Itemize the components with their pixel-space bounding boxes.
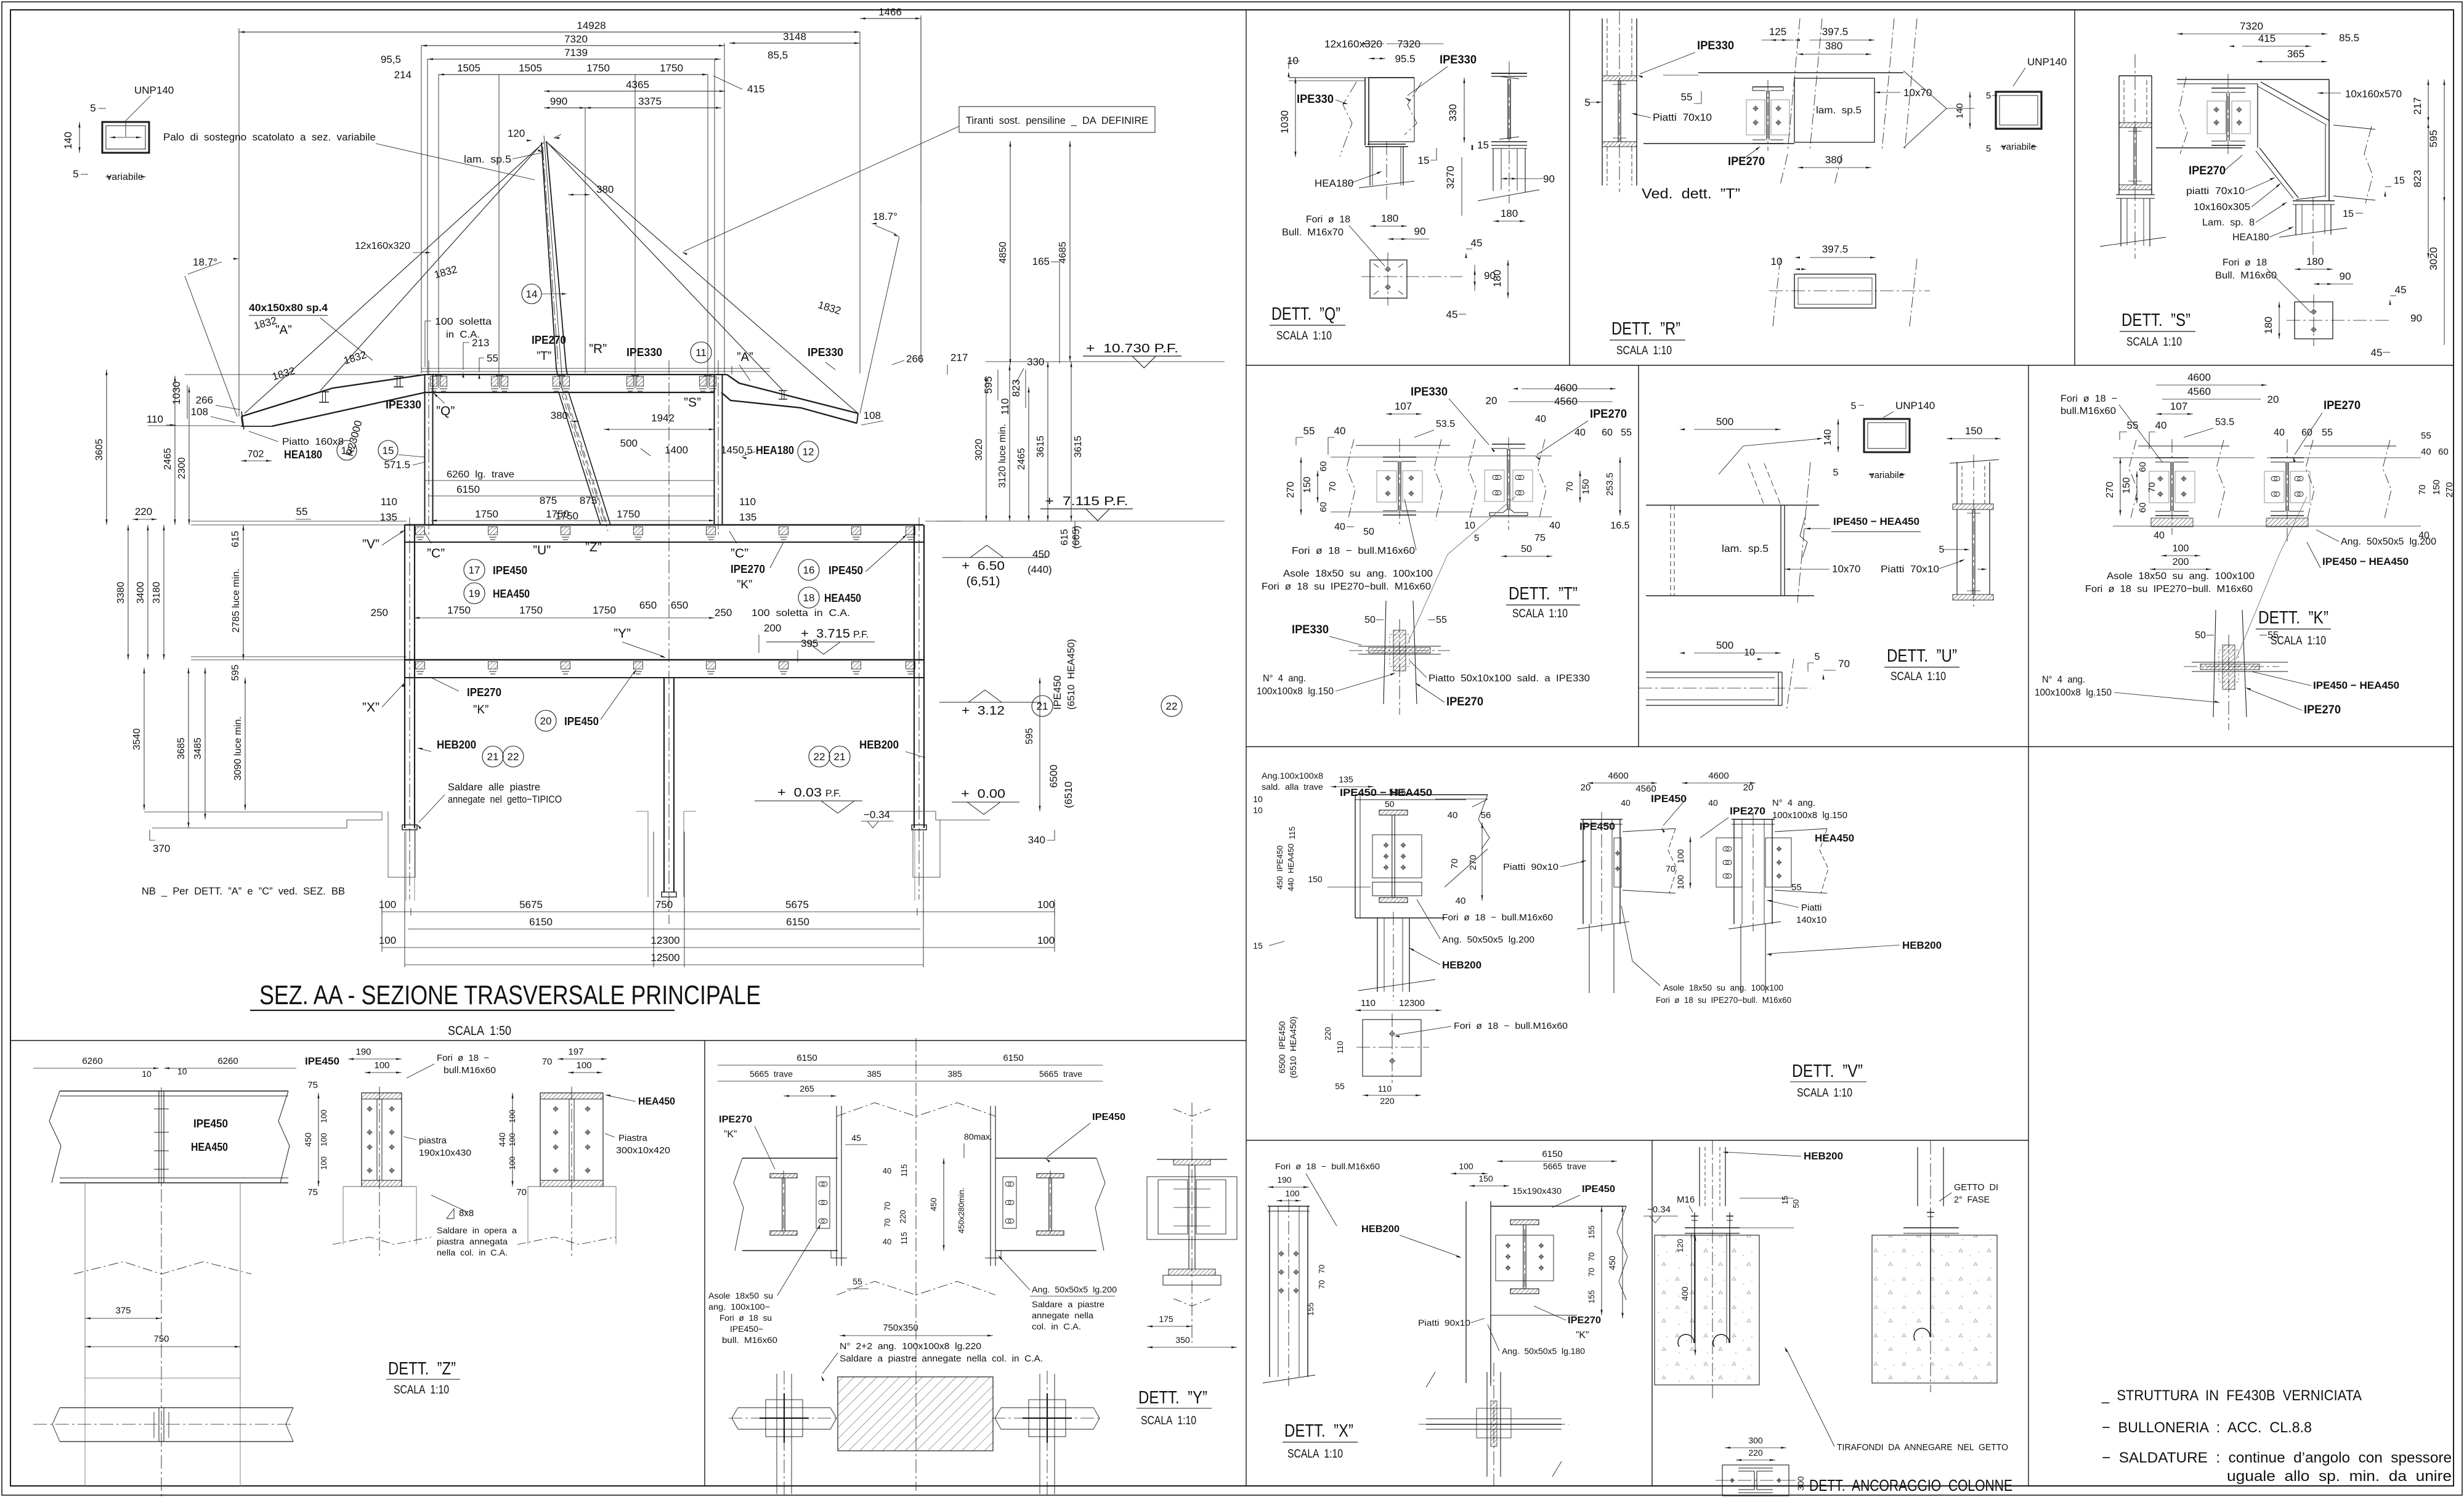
svg-text:Fori ø 18 su IPE270−bull.: Fori ø 18 su IPE270−bull. M16x60 (1262, 582, 1431, 592)
svg-text:DETT. ”S”: DETT. ”S” (2122, 310, 2190, 330)
svg-text:”A”: ”A” (737, 351, 753, 364)
svg-text:DETT. ”Z”: DETT. ”Z” (388, 1359, 456, 1379)
svg-text:40: 40 (2154, 530, 2165, 541)
svg-text:270: 270 (1468, 854, 1478, 870)
svg-text:615: 615 (1060, 529, 1070, 546)
svg-text:Fori ø 18 − bull.M16x60: Fori ø 18 − bull.M16x60 (1454, 1021, 1568, 1031)
DETT S drawing (2100, 20, 2446, 359)
notes text bottom right (2101, 1387, 2452, 1485)
svg-text:+ 0.03: + 0.03 (777, 786, 822, 800)
svg-text:Fori ø 18: Fori ø 18 (1306, 214, 1350, 225)
NB note (142, 885, 345, 897)
svg-text:220: 220 (1380, 1096, 1395, 1106)
svg-text:Bull. M16x60: Bull. M16x60 (2215, 270, 2277, 281)
svg-text:70: 70 (1317, 1265, 1326, 1273)
svg-text:− BULLONERIA : ACC. CL.8.8: − BULLONERIA : ACC. CL.8.8 (2102, 1419, 2312, 1436)
svg-text:3090 luce min.: 3090 luce min. (233, 716, 243, 781)
svg-text:1750: 1750 (475, 508, 498, 520)
svg-text:571.5: 571.5 (384, 459, 410, 471)
svg-text:150: 150 (1302, 477, 1313, 493)
svg-text:990: 990 (550, 95, 567, 107)
svg-text:Bull. M16x70: Bull. M16x70 (1282, 227, 1343, 238)
svg-text:107: 107 (1395, 400, 1412, 412)
svg-text:6260 lg. trave: 6260 lg. trave (447, 469, 514, 480)
dim 370 340 (150, 830, 1055, 854)
svg-text:110: 110 (1335, 1041, 1345, 1054)
splice elevation IPE450 HEA450 (33, 1056, 296, 1497)
svg-text:N° 4 ang.: N° 4 ang. (1263, 673, 1306, 684)
level +6.50 (942, 545, 1047, 588)
svg-text:IPE330: IPE330 (1411, 386, 1448, 399)
dim chain 1505 1505 1750 1750 (394, 6, 921, 95)
svg-text:+ 6.50: + 6.50 (962, 559, 1005, 573)
dims near roof middle (253, 256, 1060, 383)
svg-text:7139: 7139 (564, 47, 588, 59)
svg-text:4560: 4560 (2187, 386, 2211, 397)
svg-text:Saldare a piastre annegate: Saldare a piastre annegate nella col. in… (840, 1353, 1043, 1364)
roof beam IPE330 left arc (241, 375, 425, 426)
svg-text:6260: 6260 (217, 1056, 238, 1066)
svg-text:lam. sp.5: lam. sp.5 (464, 153, 511, 165)
svg-text:IPE270: IPE270 (467, 686, 501, 699)
svg-text:1750: 1750 (519, 604, 543, 616)
column left lower (405, 517, 415, 899)
svg-text:70: 70 (1666, 864, 1676, 874)
labels 16 17 18 19 IPE450 HEA450 (464, 534, 907, 608)
svg-text:100: 100 (319, 1156, 328, 1170)
svg-text:180: 180 (1491, 270, 1503, 287)
svg-text:55: 55 (2127, 420, 2139, 431)
svg-text:380: 380 (551, 410, 568, 421)
svg-text:Ang. 50x50x5 lg.200: Ang. 50x50x5 lg.200 (1032, 1284, 1117, 1294)
svg-text:annegate nella: annegate nella (1032, 1310, 1093, 1320)
svg-text:4600: 4600 (1708, 771, 1728, 781)
svg-text:Piastra: Piastra (618, 1133, 647, 1143)
svg-text:HEA180: HEA180 (756, 444, 794, 456)
svg-text:6150: 6150 (529, 916, 553, 928)
svg-text:1750: 1750 (617, 508, 640, 520)
svg-text:variabile: variabile (1870, 470, 1904, 481)
ground left outline (144, 811, 415, 901)
level -0.34 (861, 809, 893, 828)
svg-text:266: 266 (196, 394, 213, 406)
dims row 250 1750s lower (371, 599, 850, 662)
svg-text:125: 125 (1769, 26, 1786, 38)
DETT Q anchor plate plan (1370, 260, 1407, 298)
DETT Z drawing (303, 1047, 675, 1397)
svg-text:150: 150 (1308, 874, 1323, 884)
anchor plan square (1722, 1465, 1789, 1496)
svg-text:875: 875 (540, 495, 557, 506)
svg-text:20: 20 (1486, 395, 1497, 407)
svg-text:bull.M16x60: bull.M16x60 (2061, 406, 2116, 416)
svg-text:Fori ø 18 su: Fori ø 18 su (719, 1313, 772, 1323)
svg-text:12300: 12300 (1399, 998, 1425, 1008)
roof stub posts left (319, 376, 403, 402)
svg-text:16.5: 16.5 (1610, 521, 1629, 531)
svg-text:70: 70 (1587, 1252, 1596, 1261)
svg-text:150: 150 (1581, 479, 1591, 494)
svg-text:3615: 3615 (1035, 436, 1046, 458)
svg-text:SCALA 1:10: SCALA 1:10 (1616, 344, 1672, 357)
svg-text:380: 380 (1825, 154, 1842, 166)
svg-text:IPE450: IPE450 (1579, 821, 1615, 832)
svg-text:5: 5 (1815, 652, 1820, 662)
svg-text:120: 120 (508, 128, 525, 139)
svg-text:M16: M16 (1677, 1195, 1695, 1205)
svg-text:Saldare alle piastre: Saldare alle piastre (448, 781, 540, 793)
svg-text:IPE270: IPE270 (1728, 155, 1765, 168)
svg-text:595: 595 (2428, 130, 2439, 147)
svg-text:75: 75 (307, 1187, 318, 1198)
svg-text:110: 110 (1361, 998, 1376, 1008)
svg-text:60: 60 (1318, 502, 1329, 513)
svg-text:4365: 4365 (626, 79, 649, 91)
svg-text:”V”: ”V” (362, 537, 379, 551)
svg-text:IPE450: IPE450 (193, 1118, 228, 1130)
svg-text:15: 15 (2343, 209, 2354, 219)
dim chain 7139 (381, 47, 721, 65)
svg-text:7320: 7320 (564, 33, 588, 45)
svg-text:IPE270: IPE270 (2324, 399, 2361, 412)
svg-text:2465: 2465 (1016, 448, 1027, 470)
svg-text:253.5: 253.5 (1605, 473, 1615, 496)
DETT ancoraggio colonne drawing (1643, 1141, 2012, 1496)
svg-text:55: 55 (487, 352, 498, 364)
svg-text:155: 155 (1587, 1290, 1596, 1304)
DETT U right column elevation (1956, 462, 1958, 504)
DETT Y plan cross right (1047, 1371, 1048, 1497)
svg-text:”X”: ”X” (362, 700, 379, 715)
svg-text:90: 90 (2340, 270, 2351, 282)
svg-text:3605: 3605 (94, 439, 105, 461)
svg-text:IPE270: IPE270 (731, 563, 765, 575)
column HEA180 left (284, 360, 433, 535)
svg-text:45: 45 (2395, 284, 2407, 296)
svg-text:Fori ø 18 −: Fori ø 18 − (437, 1053, 489, 1063)
level +3.715 (766, 627, 875, 654)
anchor left column (1699, 1147, 1700, 1206)
svg-text:40: 40 (1334, 522, 1345, 532)
right dim verticals (974, 362, 1084, 521)
left dim verticals upper (94, 370, 190, 525)
svg-text:100: 100 (576, 1060, 591, 1071)
angle dim 18.7 right (860, 211, 899, 413)
svg-text:(6,51): (6,51) (967, 575, 1000, 588)
svg-text:155: 155 (1587, 1225, 1596, 1239)
svg-text:70: 70 (883, 1202, 892, 1211)
svg-text:Asole 18x50 su ang. 100x10: Asole 18x50 su ang. 100x100 (2107, 571, 2255, 582)
svg-text:P.F.: P.F. (825, 789, 841, 799)
svg-text:HEB200: HEB200 (1361, 1224, 1400, 1235)
svg-text:165: 165 (1032, 256, 1050, 267)
svg-text:140: 140 (62, 132, 74, 149)
svg-text:15: 15 (2394, 176, 2405, 186)
column HEA180 right (715, 360, 819, 535)
dim chain 990 3375 (544, 95, 721, 109)
svg-text:110: 110 (147, 413, 163, 425)
svg-text:595: 595 (1024, 728, 1035, 745)
svg-text:95.5: 95.5 (1395, 53, 1415, 65)
svg-text:100: 100 (508, 1110, 517, 1123)
svg-text:1750: 1750 (555, 510, 578, 522)
label 100 soletta in C.A. upper (425, 317, 498, 379)
svg-text:214: 214 (394, 69, 411, 81)
svg-text:40: 40 (1708, 798, 1718, 808)
svg-text:75: 75 (1534, 533, 1546, 543)
svg-text:20: 20 (540, 715, 552, 727)
svg-text:18.7°: 18.7° (873, 211, 898, 222)
column right lower (914, 517, 924, 899)
svg-text:5665 trave: 5665 trave (1543, 1161, 1586, 1171)
svg-text:270: 270 (2105, 482, 2115, 498)
svg-text:21: 21 (834, 751, 846, 763)
left slab dims 220 55 (132, 506, 311, 547)
svg-text:22: 22 (1166, 700, 1178, 712)
dim chain 7320 top (421, 33, 724, 47)
tie rod right to stub (548, 144, 783, 391)
svg-text:Piatti: Piatti (1801, 903, 1822, 913)
svg-text:1505: 1505 (519, 62, 542, 74)
svg-text:40: 40 (2421, 447, 2431, 457)
DETT Y bottom plan (838, 1377, 993, 1451)
svg-text:13: 13 (341, 445, 353, 456)
svg-text:(6510 HEA450): (6510 HEA450) (1066, 639, 1077, 710)
svg-text:60: 60 (1318, 461, 1329, 472)
svg-text:14: 14 (526, 288, 538, 300)
svg-text:Piatti 90x10: Piatti 90x10 (1418, 1318, 1470, 1328)
svg-text:HEA180: HEA180 (1315, 177, 1353, 189)
svg-text:175: 175 (1159, 1314, 1173, 1324)
svg-text:IPE450−: IPE450− (730, 1324, 763, 1334)
svg-text:6150: 6150 (796, 1053, 817, 1063)
svg-text:SCALA 1:10: SCALA 1:10 (1276, 330, 1332, 343)
svg-text:12500: 12500 (650, 952, 679, 964)
svg-text:823: 823 (2412, 170, 2423, 187)
DETT Y drawing (708, 1038, 1237, 1497)
svg-text:SCALA 1:10: SCALA 1:10 (1891, 670, 1946, 683)
svg-text:55: 55 (1436, 615, 1447, 625)
svg-text:40: 40 (2155, 420, 2167, 431)
svg-text:(6510: (6510 (1063, 781, 1074, 808)
saldare alle piastre label (417, 781, 562, 829)
svg-text:440: 440 (497, 1132, 507, 1147)
svg-text:40: 40 (1574, 428, 1586, 438)
svg-text:HEA450: HEA450 (191, 1141, 228, 1153)
svg-text:375: 375 (115, 1305, 131, 1316)
svg-text:”U”: ”U” (533, 543, 551, 558)
svg-text:1466: 1466 (878, 6, 902, 18)
svg-text:IPE270: IPE270 (1568, 1315, 1601, 1326)
svg-text:100 soletta in C.A.: 100 soletta in C.A. (752, 608, 850, 619)
svg-text:UNP140: UNP140 (2027, 56, 2067, 68)
base plates (402, 825, 926, 897)
svg-text:650: 650 (639, 599, 657, 611)
svg-text:100: 100 (319, 1133, 328, 1146)
svg-text:100: 100 (1459, 1161, 1473, 1171)
svg-text:ang. 100x100−: ang. 100x100− (708, 1302, 770, 1312)
svg-text:15: 15 (1477, 139, 1489, 151)
svg-text:180: 180 (1381, 213, 1398, 224)
level +10.730 (986, 342, 1225, 368)
svg-text:lam. sp.5: lam. sp.5 (1816, 105, 1862, 116)
labels V U Z (362, 530, 784, 591)
dims 615 605 450 440 (1027, 521, 1082, 575)
DETT S bracket (2177, 79, 2329, 80)
svg-text:22: 22 (508, 751, 519, 763)
right tip dims 108 595 823 110 (861, 370, 1026, 425)
svg-text:750: 750 (153, 1334, 169, 1344)
svg-text:Fori ø 18: Fori ø 18 (2223, 258, 2267, 268)
svg-text:IPE330: IPE330 (1297, 93, 1334, 106)
DETT K bottom cross drawing (2213, 610, 2216, 717)
svg-text:SCALA 1:10: SCALA 1:10 (2126, 336, 2182, 349)
svg-text:450: 450 (929, 1198, 938, 1211)
labels 21 22 IPE450 right col (1024, 639, 1182, 811)
svg-text:150: 150 (1965, 425, 1982, 437)
svg-text:col. in C.A.: col. in C.A. (1032, 1321, 1081, 1331)
svg-text:197: 197 (568, 1047, 583, 1057)
svg-text:21: 21 (487, 751, 499, 763)
svg-text:IPE270: IPE270 (2189, 164, 2226, 177)
level +0.00 (952, 787, 1019, 814)
svg-text:P.F.: P.F. (853, 630, 869, 640)
svg-text:12x160x320: 12x160x320 (355, 241, 410, 251)
svg-text:110: 110 (739, 496, 756, 508)
svg-text:Fori ø 18 − bull.M16x60: Fori ø 18 − bull.M16x60 (1442, 912, 1553, 923)
svg-text:20: 20 (1743, 782, 1754, 793)
svg-text:150: 150 (1478, 1174, 1493, 1183)
svg-text:annegate nel getto−TIPICO: annegate nel getto−TIPICO (448, 793, 562, 805)
anchor left concrete block (1655, 1235, 1759, 1385)
left dim verticals lower (132, 665, 246, 828)
svg-text:Fori ø 18 su IPE270−bull.: Fori ø 18 su IPE270−bull. M16x60 (1656, 995, 1791, 1005)
level +0.03 (755, 786, 862, 813)
roof beam IPE330 right arc (721, 375, 858, 423)
svg-text:SCALA 1:10: SCALA 1:10 (1287, 1448, 1343, 1461)
svg-text:140: 140 (1955, 103, 1965, 118)
svg-text:Fori ø 18 −: Fori ø 18 − (2061, 394, 2117, 404)
svg-text:70: 70 (1449, 859, 1460, 869)
svg-text:5: 5 (1986, 91, 1991, 101)
svg-text:IPE270: IPE270 (1590, 408, 1627, 421)
svg-text:8x8: 8x8 (459, 1208, 474, 1219)
svg-text:6150: 6150 (1542, 1149, 1562, 1159)
svg-text:40: 40 (1448, 810, 1458, 821)
DETT Q side view (1491, 73, 1527, 74)
svg-text:Fori ø 18 su IPE270−bull.: Fori ø 18 su IPE270−bull. M16x60 (2085, 584, 2253, 594)
svg-text:100: 100 (508, 1133, 517, 1146)
svg-text:1750: 1750 (447, 604, 471, 616)
svg-text:100x100x8 lg.150: 100x100x8 lg.150 (2035, 688, 2112, 698)
svg-text:SCALA 1:50: SCALA 1:50 (448, 1024, 511, 1038)
svg-text:40x150x80 sp.4: 40x150x80 sp.4 (249, 302, 328, 314)
svg-text:5: 5 (1584, 97, 1590, 108)
bottom dim row1 100 5675 750 5675 100 (379, 899, 1055, 922)
svg-text:10: 10 (142, 1069, 152, 1079)
top dim extension lines (239, 15, 921, 416)
svg-text:variabile: variabile (2001, 142, 2036, 152)
tiranti label box (682, 107, 1155, 255)
DETT T drawing (1257, 382, 1632, 715)
DETT T right sub-drawing (1492, 444, 1525, 445)
DETT Y right beam (995, 1158, 1096, 1159)
svg-text:2300: 2300 (177, 457, 187, 479)
svg-text:200: 200 (764, 622, 781, 634)
svg-text:3270: 3270 (1445, 166, 1456, 189)
svg-text:330: 330 (1447, 104, 1459, 121)
svg-text:SCALA 1:10: SCALA 1:10 (1512, 607, 1568, 620)
svg-text:Saldare a piastre: Saldare a piastre (1032, 1299, 1104, 1309)
svg-text:_ STRUTTURA IN FE430B VERN: _ STRUTTURA IN FE430B VERNICIATA (2101, 1387, 2362, 1404)
svg-text:45: 45 (1471, 237, 1483, 249)
svg-text:Asole 18x50 su: Asole 18x50 su (708, 1291, 773, 1300)
svg-text:55: 55 (853, 1276, 862, 1286)
svg-text:Ved. dett. ”T”: Ved. dett. ”T” (1642, 185, 1740, 201)
tie rod left to stub (320, 144, 542, 391)
svg-text:IPE270: IPE270 (1730, 805, 1765, 817)
svg-text:220: 220 (1323, 1027, 1332, 1041)
svg-text:”K”: ”K” (473, 704, 488, 716)
svg-text:DETT. ”U”: DETT. ”U” (1887, 646, 1957, 666)
DETT K drawing (2035, 371, 2455, 730)
svg-text:bull.M16x60: bull.M16x60 (444, 1065, 496, 1076)
labels HEB200 21 22 left (417, 739, 524, 767)
svg-text:1750: 1750 (593, 604, 616, 616)
svg-text:5: 5 (90, 102, 95, 114)
svg-text:823: 823 (1010, 379, 1022, 397)
svg-text:380: 380 (1825, 40, 1842, 52)
svg-text:10: 10 (1744, 647, 1755, 658)
svg-text:5675: 5675 (785, 899, 809, 911)
svg-text:15: 15 (383, 445, 394, 456)
svg-text:100: 100 (319, 1110, 328, 1123)
DETT T left sub-drawing (1356, 445, 1450, 446)
center pedestal (636, 811, 696, 897)
svg-text:”K”: ”K” (724, 1129, 737, 1140)
svg-text:55: 55 (2322, 428, 2333, 438)
svg-text:IPE450 − HEA450: IPE450 − HEA450 (1340, 787, 1432, 798)
svg-text:(440): (440) (1027, 564, 1052, 575)
svg-text:115: 115 (1287, 827, 1297, 840)
svg-text:53.5: 53.5 (1436, 419, 1455, 429)
svg-text:3020: 3020 (974, 439, 984, 461)
svg-text:70: 70 (1838, 658, 1850, 670)
svg-text:50: 50 (1364, 615, 1376, 625)
svg-text:NB _ Per DETT. ”A” e ”C”: NB _ Per DETT. ”A” e ”C” ved. SEZ. BB (142, 885, 345, 897)
svg-text:200: 200 (2173, 557, 2189, 567)
circle 14 tie rod (522, 284, 567, 304)
svg-text:190: 190 (355, 1047, 371, 1057)
svg-text:15: 15 (1253, 941, 1263, 951)
svg-text:55: 55 (2421, 431, 2431, 441)
svg-text:DETT. ”V”: DETT. ”V” (1792, 1061, 1863, 1081)
column center (664, 360, 674, 924)
svg-text:3375: 3375 (638, 95, 662, 107)
svg-text:180: 180 (1501, 208, 1518, 219)
svg-text:IPE450 − HEA450: IPE450 − HEA450 (2313, 680, 2399, 691)
left tip plate Piatto 160x8 (148, 375, 421, 462)
svg-text:190x10x430: 190x10x430 (419, 1148, 471, 1158)
svg-text:HEA450: HEA450 (638, 1095, 675, 1107)
svg-text:3485: 3485 (193, 737, 203, 760)
svg-text:110: 110 (1378, 1084, 1392, 1093)
svg-text:Fori ø 18 − bull.M16x60: Fori ø 18 − bull.M16x60 (1275, 1161, 1380, 1171)
svg-text:270: 270 (1286, 482, 1296, 498)
svg-text:10: 10 (1253, 805, 1263, 815)
svg-text:180: 180 (2263, 317, 2274, 334)
svg-text:10x160x570: 10x160x570 (2345, 88, 2402, 100)
